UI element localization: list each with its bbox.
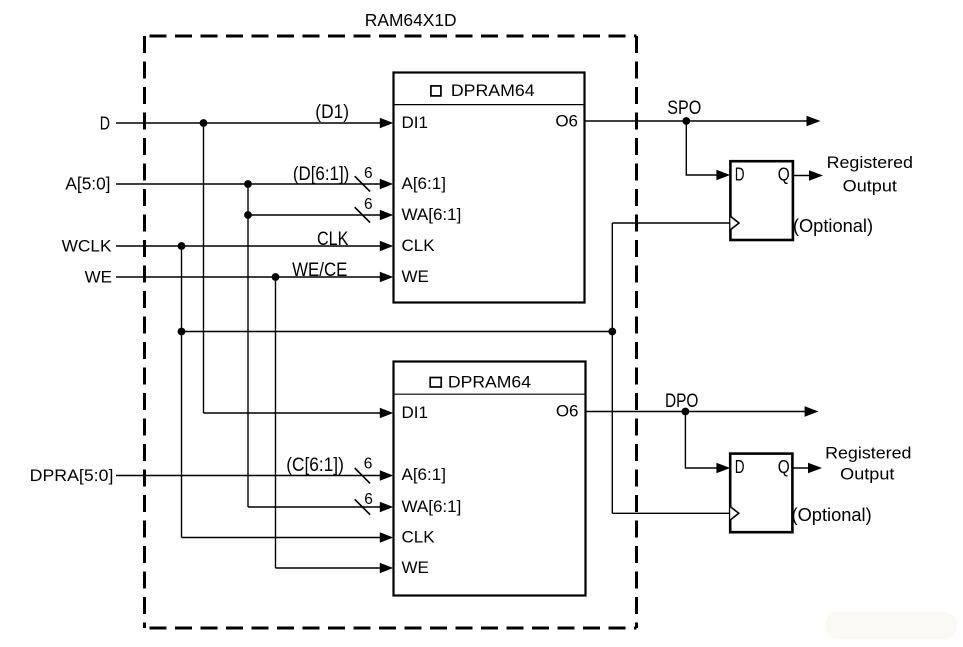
svg-text:(D[6:1]): (D[6:1]) xyxy=(293,164,349,185)
svg-text:(Optional): (Optional) xyxy=(792,504,872,525)
svg-text:Q: Q xyxy=(778,164,790,185)
svg-text:6: 6 xyxy=(364,196,373,213)
svg-text:DPRAM64: DPRAM64 xyxy=(448,374,531,392)
svg-text:A[5:0]: A[5:0] xyxy=(65,173,110,193)
svg-text:WA[6:1]: WA[6:1] xyxy=(402,205,462,224)
svg-text:O6: O6 xyxy=(556,402,579,421)
svg-text:Registered: Registered xyxy=(827,153,913,172)
svg-text:WE: WE xyxy=(402,267,429,286)
svg-text:A[6:1]: A[6:1] xyxy=(402,465,446,484)
svg-text:6: 6 xyxy=(364,491,373,508)
svg-text:DPO: DPO xyxy=(665,391,698,412)
svg-text:6: 6 xyxy=(364,165,373,182)
svg-text:WCLK: WCLK xyxy=(62,237,113,256)
svg-text:SPO: SPO xyxy=(667,98,701,119)
svg-text:Output: Output xyxy=(843,177,897,196)
svg-text:6: 6 xyxy=(364,456,373,473)
svg-text:Registered: Registered xyxy=(825,444,911,463)
svg-text:Output: Output xyxy=(840,465,894,484)
svg-text:(D1): (D1) xyxy=(315,102,349,123)
svg-text:O6: O6 xyxy=(555,111,578,130)
svg-text:WE/CE: WE/CE xyxy=(292,260,347,281)
svg-text:A[6:1]: A[6:1] xyxy=(402,174,446,193)
svg-text:CLK: CLK xyxy=(317,229,349,250)
svg-text:DPRAM64: DPRAM64 xyxy=(451,82,535,100)
svg-text:D: D xyxy=(100,113,110,134)
svg-text:(C[6:1]): (C[6:1]) xyxy=(286,455,344,476)
svg-text:WE: WE xyxy=(402,558,429,577)
svg-text:WA[6:1]: WA[6:1] xyxy=(402,497,462,516)
svg-text:DI1: DI1 xyxy=(402,403,428,422)
svg-text:D: D xyxy=(735,456,745,477)
svg-text:CLK: CLK xyxy=(402,528,436,547)
svg-text:(Optional): (Optional) xyxy=(793,215,873,236)
svg-text:RAM64X1D: RAM64X1D xyxy=(365,10,457,30)
svg-text:Q: Q xyxy=(778,456,790,477)
svg-text:CLK: CLK xyxy=(402,236,436,255)
svg-text:DI1: DI1 xyxy=(402,113,428,132)
svg-text:DPRA[5:0]: DPRA[5:0] xyxy=(30,466,114,485)
svg-text:WE: WE xyxy=(85,267,112,286)
svg-text:D: D xyxy=(735,164,745,185)
